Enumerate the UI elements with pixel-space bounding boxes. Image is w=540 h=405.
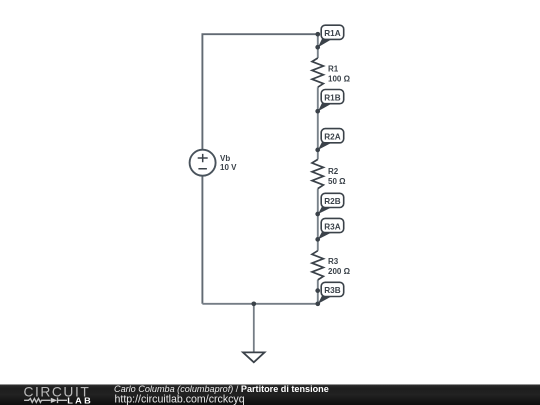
svg-text:Vb: Vb (220, 154, 230, 163)
svg-text:LAB: LAB (67, 396, 93, 405)
svg-text:200 Ω: 200 Ω (328, 267, 351, 276)
svg-text:R3B: R3B (324, 286, 340, 295)
svg-text:R1A: R1A (324, 29, 340, 38)
svg-text:R1B: R1B (324, 93, 340, 102)
svg-text:R2: R2 (328, 167, 339, 176)
svg-text:100 Ω: 100 Ω (328, 74, 351, 83)
svg-text:http://circuitlab.com/crckcyq: http://circuitlab.com/crckcyq (115, 393, 245, 405)
svg-text:50 Ω: 50 Ω (328, 177, 346, 186)
svg-text:R2A: R2A (324, 133, 340, 142)
svg-text:10 V: 10 V (220, 163, 237, 172)
svg-text:R3: R3 (328, 257, 339, 266)
svg-text:R1: R1 (328, 65, 339, 74)
svg-text:R3A: R3A (324, 222, 340, 231)
svg-text:R2B: R2B (324, 197, 340, 206)
